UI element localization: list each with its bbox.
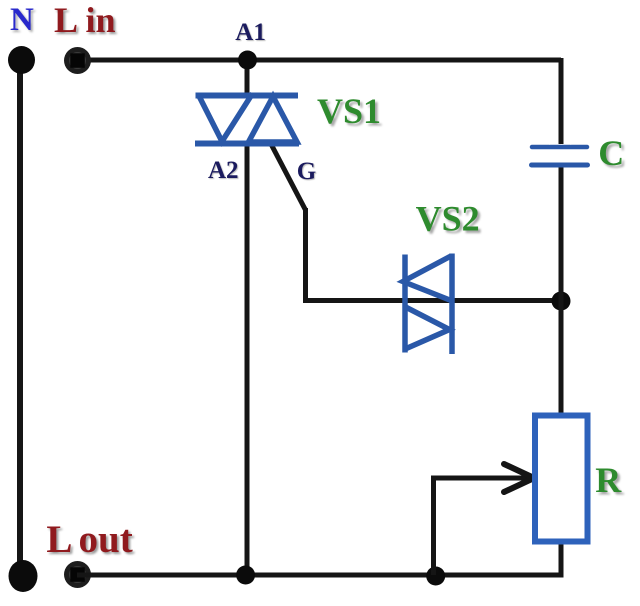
wire: wiper vertical bbox=[431, 476, 436, 575]
capacitor C plates bbox=[532, 147, 588, 165]
wire: right vertical from top corner down to capacitor top plate bbox=[559, 58, 564, 144]
svg-text:in: in bbox=[86, 0, 116, 40]
svg-text:A2: A2 bbox=[208, 157, 239, 184]
wiper arrowhead bbox=[504, 464, 534, 492]
svg-text:N: N bbox=[10, 2, 34, 38]
svg-text:L: L bbox=[54, 0, 78, 40]
terminal: N bottom (filled circle) bbox=[9, 560, 38, 592]
wire: right vertical from capacitor bottom to resistor top bbox=[559, 167, 564, 417]
node A1 junction dot bbox=[238, 51, 257, 70]
wire: gate diagonal from triac bbox=[271, 144, 306, 210]
wire: bottom horizontal L out to right corner bbox=[77, 573, 564, 578]
svg-text:VS2: VS2 bbox=[416, 199, 480, 239]
wire: middle horizontal through diac to right junction bbox=[303, 298, 561, 303]
wire: top horizontal L in to right corner bbox=[77, 58, 561, 63]
wire: N vertical line bbox=[17, 66, 23, 570]
svg-text:A1: A1 bbox=[235, 19, 266, 46]
diac VS2 symbol bbox=[403, 254, 452, 355]
svg-text:out: out bbox=[79, 518, 133, 561]
svg-text:C: C bbox=[598, 133, 624, 173]
terminal: L in (ring with square) bbox=[64, 47, 91, 74]
terminal: L out (ring with square) bbox=[64, 561, 91, 588]
wire: resistor bottom to bottom wire bbox=[559, 540, 564, 575]
triac VS1 symbol bbox=[195, 94, 299, 144]
node: right junction dot (cap/diac/R net) bbox=[552, 292, 571, 311]
wire: wiper horizontal to arrow bbox=[431, 476, 528, 481]
svg-text:VS1: VS1 bbox=[317, 91, 381, 131]
node: junction dot bottom (wiper line) bbox=[426, 567, 445, 586]
svg-text:G: G bbox=[297, 158, 316, 185]
node: junction dot bottom (triac line) bbox=[236, 566, 255, 585]
svg-text:L: L bbox=[46, 518, 72, 561]
wire: triac vertical upper segment (A1 to top bar) bbox=[245, 60, 250, 97]
svg-text:R: R bbox=[595, 460, 622, 500]
wire: gate vertical segment bbox=[303, 208, 308, 300]
terminal: N top (filled circle) bbox=[8, 46, 35, 74]
resistor R body (potentiometer) bbox=[535, 416, 588, 542]
wire: triac vertical lower segment (bottom bar to bottom wire) bbox=[245, 142, 250, 575]
